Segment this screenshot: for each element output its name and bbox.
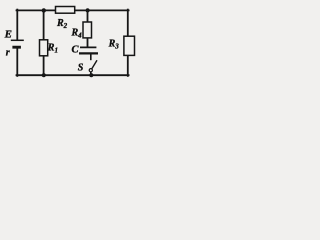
wire: left rail upper (battery top lead) [16, 10, 18, 40]
node: bottom junction switch [89, 73, 93, 77]
svg-text:S: S [78, 63, 84, 74]
battery E,r short thick plate [12, 46, 21, 49]
wire: R1 branch upper [43, 10, 45, 39]
capacitor C top plate [80, 46, 96, 48]
wire: capacitor to switch [90, 55, 92, 61]
resistor R3 box [124, 36, 135, 55]
node: bottom junction R1 [42, 73, 46, 77]
wire: switch to bottom rail [90, 72, 92, 75]
switch S hinge circle [89, 69, 92, 72]
wire: right rail lower (R3 to bottom) [127, 55, 129, 76]
switch S blade [92, 60, 97, 68]
wire: R1 branch lower [43, 56, 45, 75]
node: top junction to R4 [86, 8, 90, 12]
wire: left rail lower (battery bottom lead) [16, 48, 18, 76]
capacitor C bottom plate [79, 52, 98, 54]
wire: bottom rail [17, 74, 129, 76]
resistor R4 box [83, 22, 92, 38]
background [0, 0, 144, 86]
resistor R1 box [40, 40, 48, 56]
svg-text:r: r [6, 47, 10, 58]
wire: R4 branch upper [87, 10, 89, 22]
node: top junction to R1 [42, 8, 46, 12]
wire: R4 to capacitor [87, 38, 89, 47]
svg-text:E: E [4, 29, 12, 41]
wire: top rail [17, 9, 129, 11]
wire: right rail upper (to R3) [127, 10, 129, 37]
battery E,r long plate [11, 39, 24, 41]
resistor R2 box [56, 7, 75, 14]
svg-text:C: C [72, 44, 80, 55]
